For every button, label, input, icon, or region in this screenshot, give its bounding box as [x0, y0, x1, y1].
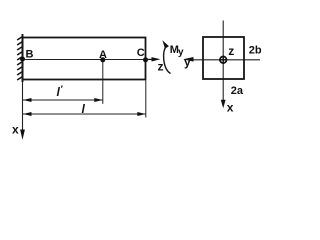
extension line at A [102, 62, 104, 104]
axis z at beam end [146, 57, 164, 73]
node A [99, 49, 107, 62]
svg-text:2a: 2a [231, 85, 244, 97]
dimension l [23, 102, 146, 116]
centroid symbol [219, 56, 227, 64]
axis x at wall [12, 82, 25, 140]
node B [20, 49, 34, 62]
dimension l' [23, 84, 103, 102]
cross-section horizontal centerline with axis y arrow [183, 55, 260, 69]
beam outline [23, 38, 146, 80]
label 2a [231, 85, 244, 97]
svg-text:2b: 2b [249, 45, 262, 57]
svg-text:B: B [26, 49, 34, 61]
svg-text:x: x [12, 123, 19, 137]
svg-text:y: y [184, 55, 191, 69]
square cross-section outline [203, 37, 244, 79]
svg-text:z: z [228, 44, 234, 58]
beam centerline wire [23, 59, 146, 61]
svg-text:C: C [137, 47, 145, 59]
svg-text:′: ′ [61, 84, 63, 94]
svg-text:A: A [99, 49, 107, 61]
label 2b [249, 45, 262, 57]
wall line [22, 34, 24, 82]
label z at centroid [228, 44, 234, 58]
node C [137, 47, 148, 62]
svg-text:z: z [158, 60, 164, 74]
moment My curved arrow [162, 40, 184, 73]
wall hatching [17, 37, 22, 81]
cross-section vertical centerline with axis x arrow [221, 21, 234, 115]
extension line at beam right end [145, 81, 147, 118]
svg-text:x: x [227, 101, 234, 115]
